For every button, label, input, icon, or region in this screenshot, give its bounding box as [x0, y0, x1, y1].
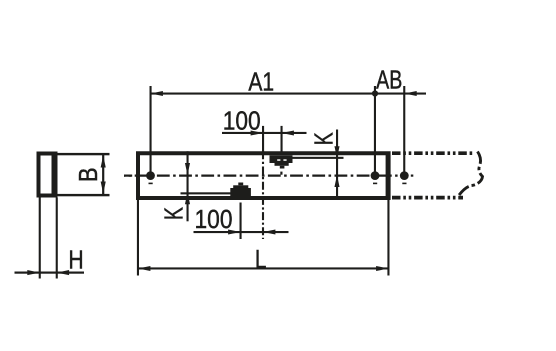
break squiggle — [459, 152, 483, 196]
slot line top — [293, 157, 344, 159]
dimension line 100 top — [222, 132, 307, 134]
extension line bottom (B dimension) — [58, 194, 110, 196]
arrow K bottom lower — [185, 192, 190, 204]
arrow L left — [138, 266, 150, 271]
arrow H right — [57, 270, 69, 275]
centreline start dash — [124, 175, 132, 177]
hole far (in dashed continuation) — [400, 171, 409, 180]
dot A1 right — [372, 90, 378, 96]
extension line top (B dimension) — [58, 153, 110, 155]
dimension line B — [102, 155, 104, 196]
extension line A1 left — [150, 86, 152, 172]
bar outline (top view) — [136, 151, 391, 200]
extension line 100 top left (to bar centre) — [262, 126, 264, 152]
extension line L right — [387, 200, 389, 276]
extension line 100 bottom left (tab centre) — [240, 203, 242, 240]
dimension line L — [137, 267, 390, 269]
continuation bottom edge (dash-dot-dot) — [392, 196, 463, 200]
arrow B top — [101, 155, 106, 167]
dimension line 100 bottom — [194, 231, 289, 233]
dimension line H — [15, 272, 85, 274]
svg-text:100: 100 — [195, 206, 233, 235]
arrow AB — [404, 91, 416, 96]
svg-text:B: B — [74, 167, 103, 182]
svg-text:A1: A1 — [248, 68, 274, 97]
svg-text:K: K — [159, 207, 188, 221]
centreline main (dash-dot) — [124, 175, 398, 177]
extension line H left — [39, 198, 41, 279]
arrow H left — [27, 270, 39, 275]
svg-text:AB: AB — [376, 65, 402, 94]
continuation top edge (dash-dot-dot) — [392, 151, 475, 155]
arrow 100 bottom left — [228, 229, 240, 234]
arrow A1 left — [151, 91, 163, 96]
hole far centre tick — [402, 183, 406, 185]
extension line AB right — [403, 86, 405, 172]
dimension line K bottom — [187, 151, 189, 221]
slot line bottom — [181, 192, 231, 194]
hole right centre tick — [373, 183, 377, 185]
arrow K bottom upper — [185, 163, 190, 175]
arrow K top lower — [334, 175, 339, 187]
arrow L right — [376, 266, 388, 271]
bar centre line vertical (dash-dot) — [262, 151, 264, 239]
svg-text:L: L — [255, 245, 267, 274]
svg-text:100: 100 — [223, 107, 261, 136]
dimension line K top — [336, 130, 338, 200]
extension line 100 top right (tab centre) — [281, 126, 283, 152]
tab top (T-slot stone) — [270, 155, 293, 163]
arrow 100 bottom right — [263, 229, 275, 234]
arrow K top upper — [334, 146, 339, 158]
hole left centre tick — [149, 183, 153, 185]
extension line AB left — [374, 86, 376, 172]
extension line H right — [56, 198, 58, 279]
svg-text:K: K — [309, 132, 338, 146]
side view profile (hollow section) — [37, 152, 58, 198]
svg-text:H: H — [68, 246, 83, 275]
arrow 100 top left — [251, 130, 263, 135]
dimension line A1 / AB — [150, 93, 427, 95]
tab bottom (T-slot stone) — [238, 183, 243, 186]
arrow 100 top right — [282, 130, 294, 135]
hole right — [371, 171, 380, 180]
extension line L left — [137, 200, 139, 276]
arrow B bottom — [101, 182, 106, 194]
hole left — [146, 171, 155, 180]
centreline dot after far hole — [411, 175, 414, 177]
